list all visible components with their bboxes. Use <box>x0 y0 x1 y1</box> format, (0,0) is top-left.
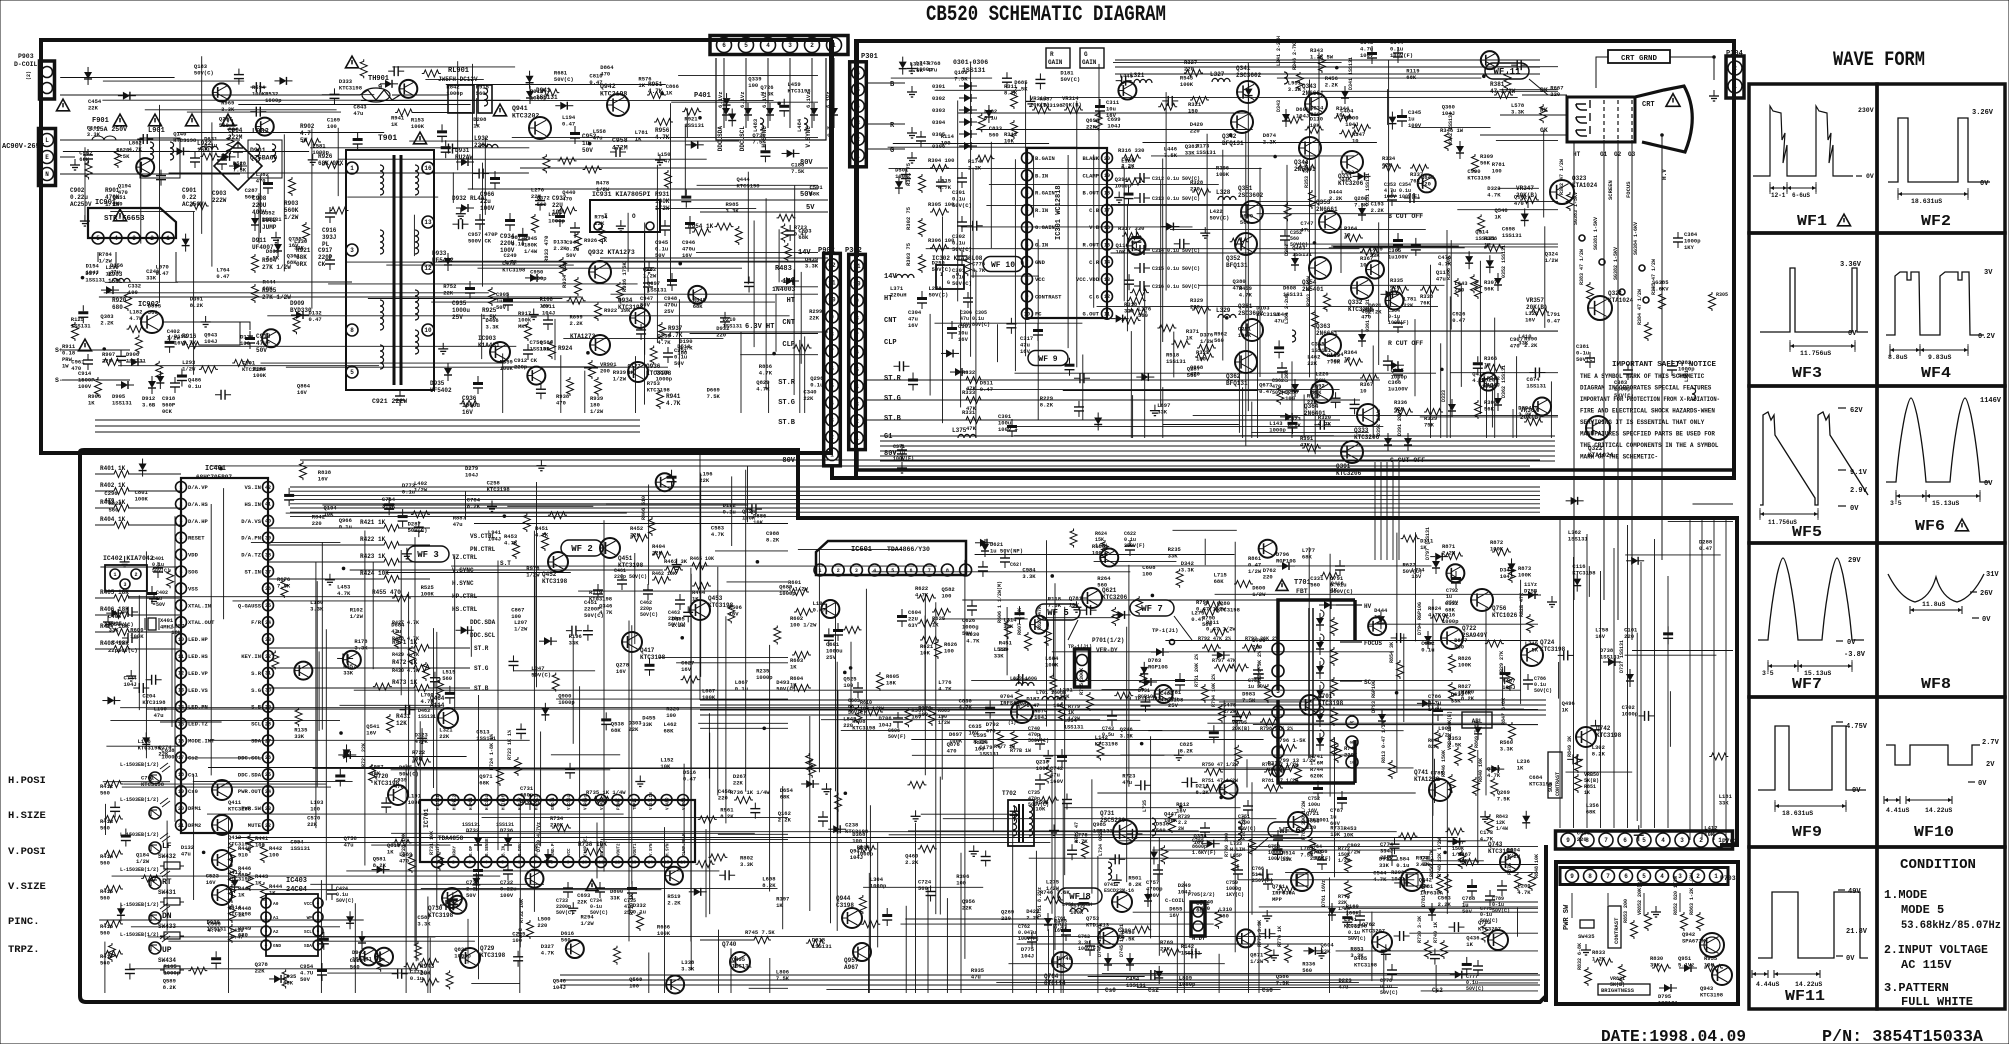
svg-text:0RX: 0RX <box>296 261 307 268</box>
wire (filler) <box>730 948 732 993</box>
T701 pin 8 <box>1272 726 1284 738</box>
warning triangle <box>114 114 127 126</box>
wire (filler) <box>1286 165 1288 252</box>
wire (filler) <box>223 488 225 619</box>
svg-text:1SS131: 1SS131 <box>1475 235 1496 242</box>
connector P401 breakout box <box>716 58 826 140</box>
svg-text:16V: 16V <box>1069 601 1080 608</box>
mosfet Q704 IRFS640A <box>1011 701 1033 723</box>
svg-text:1.MODE: 1.MODE <box>1884 888 1927 902</box>
capacitor C954 4.7U 50V <box>317 969 327 972</box>
capacitor C307 10u 16V <box>947 327 957 330</box>
svg-text:0.1u: 0.1u <box>511 241 524 248</box>
wire (filler) <box>507 505 593 507</box>
svg-text:KTC3198: KTC3198 <box>339 85 363 92</box>
capacitor C381 0.1u 50V(C) <box>1585 357 1595 359</box>
wire (filler) <box>1009 963 1225 965</box>
svg-text:0301: 0301 <box>932 83 946 90</box>
svg-text:1K: 1K <box>106 270 113 277</box>
resistor R442 100 <box>261 844 268 863</box>
svg-text:4.7K: 4.7K <box>1480 836 1494 843</box>
svg-text:BFQ131: BFQ131 <box>1222 140 1244 147</box>
capacitor C245 (filler) <box>284 494 294 497</box>
wire (filler) <box>1017 943 1321 945</box>
svg-text:WF4: WF4 <box>1921 365 1951 382</box>
svg-text:5: 5 <box>744 42 748 49</box>
svg-text:50V: 50V <box>300 976 311 983</box>
ground (filler) <box>442 343 444 349</box>
resistor R624 15K 1/4W <box>1102 540 1109 559</box>
svg-text:R.IN: R.IN <box>1035 207 1048 214</box>
wire (filler) <box>869 805 871 952</box>
svg-text:680: 680 <box>112 304 123 311</box>
svg-text:4.7K: 4.7K <box>1487 192 1501 199</box>
diode D328 (filler) <box>723 98 731 105</box>
svg-text:SW435: SW435 <box>1578 933 1595 940</box>
svg-text:39K: 39K <box>1650 962 1661 969</box>
svg-text:R473 1K: R473 1K <box>392 679 418 686</box>
resistor R412 560 <box>104 781 123 788</box>
wire (filler) <box>1067 155 1069 348</box>
wire (filler) <box>1220 768 1290 770</box>
svg-text:1K: 1K <box>1186 335 1193 342</box>
svg-text:620K: 620K <box>1310 773 1324 780</box>
transistor Q722 2SA949Y <box>1441 627 1463 649</box>
IC301 pin 13 VCC.VDD <box>1102 274 1113 285</box>
svg-text:1SS131: 1SS131 <box>112 400 133 407</box>
svg-text:4: 4 <box>114 235 118 242</box>
resistor R430 4.7K <box>437 678 444 697</box>
svg-text:1/2W: 1/2W <box>514 625 528 632</box>
transistor Q936 KTC3198 <box>628 362 648 382</box>
IC601 TDA4866/Y30 <box>816 541 966 575</box>
ground (filler) <box>329 574 331 580</box>
svg-text:76K: 76K <box>1420 300 1431 307</box>
diode D612 (filler) <box>560 102 567 110</box>
svg-text:222W: 222W <box>212 197 227 204</box>
svg-text:4.44uS: 4.44uS <box>1756 981 1780 988</box>
transistor Q942 KTC3198 <box>607 94 629 116</box>
resistor R623 47K <box>1045 627 1052 646</box>
svg-text:1SS131: 1SS131 <box>290 845 311 852</box>
svg-text:TZ.CTRL: TZ.CTRL <box>452 554 478 561</box>
wire (filler) <box>671 101 818 103</box>
resistor R248 (filler) <box>599 225 606 244</box>
svg-text:1000p: 1000p <box>1269 427 1286 434</box>
transistor Q936b KTA1273 <box>590 335 610 355</box>
svg-text:R.GAIN: R.GAIN <box>1035 190 1055 197</box>
svg-text:560: 560 <box>100 825 110 832</box>
svg-text:L735: L735 <box>1142 800 1148 812</box>
wire (filler) <box>412 112 471 114</box>
svg-text:0V: 0V <box>1852 787 1861 795</box>
IC401 pin 25 DDC.SDA <box>263 769 274 780</box>
svg-text:3.3K: 3.3K <box>87 131 101 138</box>
svg-text:50V(C): 50V(C) <box>952 280 972 287</box>
resistor R323 150 <box>1197 345 1216 352</box>
inductor L329 <box>1218 314 1224 318</box>
wire (filler) <box>872 571 1131 573</box>
svg-text:N: N <box>45 171 49 178</box>
svg-text:RGP10G: RGP10G <box>1138 694 1156 700</box>
svg-text:560: 560 <box>476 90 486 97</box>
svg-text:R924: R924 <box>558 345 573 352</box>
svg-text:29V: 29V <box>1848 557 1861 565</box>
svg-text:20: 20 <box>1104 156 1110 162</box>
junction (filler) <box>1219 796 1223 800</box>
resistor R443 1K <box>247 872 254 891</box>
resistor R626 100 <box>935 640 942 659</box>
junction (filler) <box>777 102 781 106</box>
wire (filler) <box>658 656 788 658</box>
resistor R760 300 <box>1232 854 1239 873</box>
svg-text:WF9: WF9 <box>1792 824 1822 841</box>
wire (filler) <box>709 733 711 915</box>
svg-text:R920: R920 <box>112 297 127 304</box>
bus wires mid <box>700 699 1546 701</box>
resistor R939 (filler) <box>141 875 160 882</box>
svg-text:470: 470 <box>1361 313 1371 320</box>
svg-text:9.1V: 9.1V <box>1850 469 1868 477</box>
capacitor C913 47uF 50V <box>245 337 255 340</box>
svg-text:S.B: S.B <box>251 704 262 711</box>
svg-text:P703: P703 <box>1720 875 1736 882</box>
wire (filler) <box>684 125 686 198</box>
capacitor C935 1000u 25V <box>465 287 475 290</box>
svg-text:1SS131: 1SS131 <box>1502 232 1523 239</box>
capacitor C297 (filler) <box>1006 323 1016 325</box>
svg-text:50V: 50V <box>496 304 507 311</box>
svg-text:B.IN: B.IN <box>503 845 507 856</box>
transistor Q943 KTC3198 <box>1712 965 1732 985</box>
wire (filler) <box>1160 180 1162 407</box>
transistor Q391 KTC3206 <box>1341 441 1363 463</box>
capacitor C443 (filler) <box>405 705 407 715</box>
capacitor C798 (filler) <box>234 74 244 76</box>
wire (filler) <box>1117 840 1487 842</box>
svg-text:56K: 56K <box>1480 160 1491 167</box>
diode D683 (filler) <box>111 609 118 617</box>
svg-text:7.5K: 7.5K <box>791 168 805 175</box>
svg-text:50V(C): 50V(C) <box>1210 215 1230 222</box>
wire (filler) <box>1144 286 1146 438</box>
svg-text:0.47: 0.47 <box>562 120 575 127</box>
IC401 pin 35 Q-GAUSS <box>263 600 274 611</box>
wire (filler) <box>1371 912 1373 982</box>
wire (filler) <box>1082 355 1084 421</box>
capacitor C482 (filler) <box>1114 854 1116 864</box>
junction (filler) <box>81 276 85 280</box>
transistor Q342 BFQ131 <box>1231 111 1253 133</box>
svg-text:560: 560 <box>100 790 110 797</box>
resistor R750 47 1/2W <box>1204 769 1223 776</box>
svg-text:1/2W: 1/2W <box>414 487 428 494</box>
svg-text:MANUFATURES SPECFIED PARTS BE: MANUFATURES SPECFIED PARTS BE USED FOR <box>1580 431 1715 438</box>
svg-text:15.13uS: 15.13uS <box>1932 500 1959 507</box>
oval WF 2 <box>561 540 603 556</box>
resistor R746 7.5K <box>752 937 771 944</box>
wire G3/focus <box>1631 140 1633 640</box>
resistor R849 3K <box>1575 754 1582 773</box>
svg-text:1SS131: 1SS131 <box>262 216 283 223</box>
line filter L902 <box>248 140 282 178</box>
svg-text:ST.B: ST.B <box>778 419 796 427</box>
capacitor C151 (filler) <box>536 388 546 390</box>
resistor R752 47 <box>1082 840 1089 859</box>
resistor R819 (filler) <box>1122 317 1141 324</box>
svg-text:156L: 156L <box>108 278 123 285</box>
wire (filler) <box>1463 901 1538 903</box>
diode D777 (filler) <box>1474 727 1482 734</box>
svg-text:50V(C): 50V(C) <box>1492 908 1510 914</box>
resistor R391 47K <box>1302 445 1321 452</box>
svg-text:560K: 560K <box>284 207 299 214</box>
svg-text:R902: R902 <box>300 123 315 130</box>
svg-text:100K: 100K <box>253 372 267 379</box>
svg-text:DATE:1998.04.09: DATE:1998.04.09 <box>1601 1028 1746 1044</box>
wire (filler) <box>1053 924 1055 993</box>
svg-text:IC301 WC12818: IC301 WC12818 <box>1055 185 1063 240</box>
svg-text:33K: 33K <box>1168 553 1179 560</box>
svg-text:C316 0.1u 50V(C): C316 0.1u 50V(C) <box>1152 284 1200 290</box>
capacitor C735 47u 25V <box>627 887 637 890</box>
wire (filler) <box>863 886 983 888</box>
svg-text:H.POSI: H.POSI <box>8 775 46 787</box>
svg-text:GB: GB <box>1350 741 1355 745</box>
svg-text:22K: 22K <box>1403 302 1414 309</box>
IC601 pin 7 <box>923 564 935 576</box>
transistor Q621 KTC3206 <box>1082 588 1102 608</box>
svg-text:560: 560 <box>1310 581 1320 588</box>
svg-text:TDA4858: TDA4858 <box>438 835 464 842</box>
wire (filler) <box>958 112 1251 114</box>
svg-text:2.2K: 2.2K <box>100 319 114 326</box>
svg-text:3: 3 <box>1276 688 1280 695</box>
wire (filler) <box>826 988 1280 990</box>
diode D712 (filler) <box>1140 667 1148 674</box>
svg-text:A967: A967 <box>844 964 859 971</box>
svg-text:24: 24 <box>265 789 271 795</box>
resistor R521 (filler) <box>714 223 733 230</box>
svg-text:3.3K: 3.3K <box>354 645 368 652</box>
capacitor C792 1u 250V <box>1451 577 1461 580</box>
wire (filler) <box>1046 540 1048 726</box>
svg-text:WAVE FORM: WAVE FORM <box>1833 49 1925 72</box>
svg-text:1: 1 <box>830 451 834 458</box>
resistor R895 (filler) <box>613 946 620 965</box>
wire top rail <box>60 94 360 96</box>
svg-text:T702: T702 <box>1002 790 1017 797</box>
svg-text:0.1u: 0.1u <box>410 975 423 982</box>
capacitor C733 2200p 50V(C) <box>563 887 573 889</box>
svg-text:16: 16 <box>178 738 184 744</box>
diode D503 (filler) <box>1391 361 1398 369</box>
IC301 pin 10 FC <box>1022 308 1033 319</box>
wire (filler) <box>718 833 788 835</box>
svg-text:R753 3-9K 2%: R753 3-9K 2% <box>1257 651 1263 687</box>
wire (filler) <box>1113 62 1342 64</box>
svg-text:R306 100: R306 100 <box>928 237 954 244</box>
svg-text:R422 1K: R422 1K <box>360 536 386 543</box>
wire (filler) <box>1158 837 1160 956</box>
resistor R602 100 1/2W <box>794 609 813 616</box>
svg-text:2.2K: 2.2K <box>570 320 584 327</box>
svg-text:100K: 100K <box>421 591 435 598</box>
resistor R554 (filler) <box>1097 742 1104 761</box>
wire (filler) <box>1111 252 1503 254</box>
svg-text:0.1u: 0.1u <box>188 383 201 390</box>
svg-text:8.2K: 8.2K <box>163 984 177 991</box>
svg-text:D793 RGP10G: D793 RGP10G <box>1371 680 1377 713</box>
svg-text:100: 100 <box>941 140 951 147</box>
svg-text:9: 9 <box>855 298 859 305</box>
svg-text:O: O <box>632 213 636 220</box>
resistor R424 (filler) <box>1491 777 1498 796</box>
IC301 pin 4 R.IN <box>1022 204 1033 215</box>
wire (filler) <box>1450 240 1452 330</box>
svg-text:4.7: 4.7 <box>300 130 311 137</box>
resistor R847 6.8K <box>1509 722 1516 741</box>
transistor Q741d ESC023M <box>1112 892 1132 912</box>
wire (filler) <box>1457 209 1558 211</box>
transistor Q364 2N5401 <box>1311 381 1333 403</box>
svg-text:2.2K: 2.2K <box>672 622 686 629</box>
wire (filler) <box>1052 651 1394 653</box>
svg-text:1M: 1M <box>1484 242 1491 249</box>
resistor R306 100 <box>930 245 949 252</box>
wire (filler) <box>1368 623 1538 625</box>
resistor R346 2.7K <box>1297 72 1304 91</box>
svg-text:Q740: Q740 <box>722 941 737 948</box>
capacitor C734 0.1u 50V(C) <box>595 887 605 889</box>
resistor R616 (filler) <box>918 620 937 627</box>
wire (filler) <box>340 704 442 706</box>
diode D796 RGP10G <box>1282 562 1289 570</box>
capacitor C277 (filler) <box>110 806 120 808</box>
svg-text:68K: 68K <box>1196 906 1207 913</box>
diode D425 6.1Vz <box>830 108 838 115</box>
wire (filler) <box>1198 284 1444 286</box>
capacitor C164 (filler) <box>1074 406 1084 408</box>
waveform WF6 trace <box>1886 398 1990 482</box>
svg-text:C.R: C.R <box>1089 259 1100 266</box>
wire (filler) <box>1094 560 1177 562</box>
svg-text:R606 1 1/2W(M): R606 1 1/2W(M) <box>997 581 1003 623</box>
capacitor C636 (filler) <box>720 317 730 319</box>
wire (filler) <box>1499 89 1558 91</box>
svg-text:V.S.LIN: V.S.LIN <box>650 792 654 810</box>
resistor R751b 47 1/2W <box>1204 785 1223 792</box>
capacitor C830 (filler) <box>1262 869 1264 879</box>
svg-text:22K: 22K <box>733 780 744 787</box>
resistor R302 (filler) <box>414 941 421 960</box>
svg-text:220uH: 220uH <box>890 292 907 299</box>
transistor Q729 KTC3198 <box>460 948 480 968</box>
svg-text:2: 2 <box>855 418 859 425</box>
transistor Q361 2SC3602 <box>1241 319 1263 341</box>
wire (filler) <box>1412 126 1491 128</box>
junction (filler) <box>698 116 702 120</box>
wire (filler) <box>1132 395 1134 438</box>
waveform cell frame row5 col1 <box>1749 697 1877 847</box>
svg-text:560: 560 <box>245 194 255 201</box>
wire (filler) <box>584 371 586 413</box>
IC302 KIA78L08 <box>936 265 964 289</box>
capacitor C804 (filler) <box>681 196 691 199</box>
svg-text:1SS131: 1SS131 <box>1658 1000 1679 1007</box>
wire (filler) <box>100 566 177 568</box>
resistor R384 47 1/2W <box>1645 322 1652 341</box>
svg-text:DDC.SDA: DDC.SDA <box>717 126 724 152</box>
capacitor C519 (filler) <box>1350 403 1360 405</box>
svg-text:VR852 20K(B): VR852 20K(B) <box>1637 879 1643 915</box>
resistor R512 (filler) <box>698 816 717 823</box>
wire (filler) <box>572 638 574 744</box>
waveform WF3 timing <box>1789 342 1791 350</box>
resistor R110 (filler) <box>858 846 877 853</box>
voltage rail 6.3V HT <box>660 331 828 333</box>
svg-text:68HC705B07: 68HC705B07 <box>196 474 232 481</box>
wire (filler) <box>131 968 419 970</box>
wire (filler) <box>1246 759 1248 787</box>
resistor R424 (filler) <box>774 626 781 645</box>
svg-text:13: 13 <box>178 688 184 694</box>
svg-text:2: 2 <box>1699 837 1703 844</box>
svg-text:7: 7 <box>855 332 859 339</box>
wire (filler) <box>208 767 520 769</box>
svg-text:50V(C): 50V(C) <box>776 685 796 692</box>
inductor L734 022J <box>1108 862 1112 868</box>
diode D343 1SS131 <box>1282 114 1290 121</box>
resistor R385 47 1/2W <box>1659 292 1666 311</box>
capacitor C404 22p50V(C) <box>127 607 129 617</box>
svg-text:4: 4 <box>855 384 859 391</box>
diode D935 UF5402 <box>444 368 452 375</box>
svg-text:47u: 47u <box>353 110 363 117</box>
ground (filler) <box>973 845 975 851</box>
resistor R447 1K <box>229 884 236 903</box>
svg-text:1/2W: 1/2W <box>643 273 657 280</box>
waveform cell frame row5 col2 <box>1877 697 2005 847</box>
resistor R625 1K <box>932 609 951 616</box>
wire (filler) <box>1331 245 1459 247</box>
svg-text:22K: 22K <box>439 733 450 740</box>
wire (filler) <box>889 168 1262 170</box>
svg-text:3.36V: 3.36V <box>1840 261 1862 269</box>
capacitor C109 (filler) <box>1086 605 1088 615</box>
svg-text:C917: C917 <box>318 247 333 254</box>
resistor R784 47 1/2W <box>1264 769 1283 776</box>
svg-text:1SS131: 1SS131 <box>684 122 705 129</box>
diode D933 UF5402 <box>444 258 452 265</box>
diode D265 (filler) <box>526 76 534 83</box>
resistor R221 (filler) <box>446 970 453 989</box>
waveform WF7 timing <box>1767 662 1769 670</box>
svg-text:8.2K: 8.2K <box>373 862 387 869</box>
svg-text:22K: 22K <box>809 315 820 322</box>
resistor R790 (filler) <box>583 166 602 173</box>
inductor L371 220uH <box>896 274 902 278</box>
oval WF 5 <box>1036 604 1080 620</box>
svg-text:35: 35 <box>265 603 271 609</box>
svg-text:0V: 0V <box>1980 180 1989 188</box>
svg-text:16V: 16V <box>729 611 740 618</box>
resistor R826 (filler) <box>1130 289 1149 296</box>
diode D880 (filler) <box>1453 838 1460 846</box>
capacitor C196 (filler) <box>255 107 257 117</box>
svg-text:560: 560 <box>350 963 360 970</box>
wire (filler) <box>1512 409 1514 438</box>
